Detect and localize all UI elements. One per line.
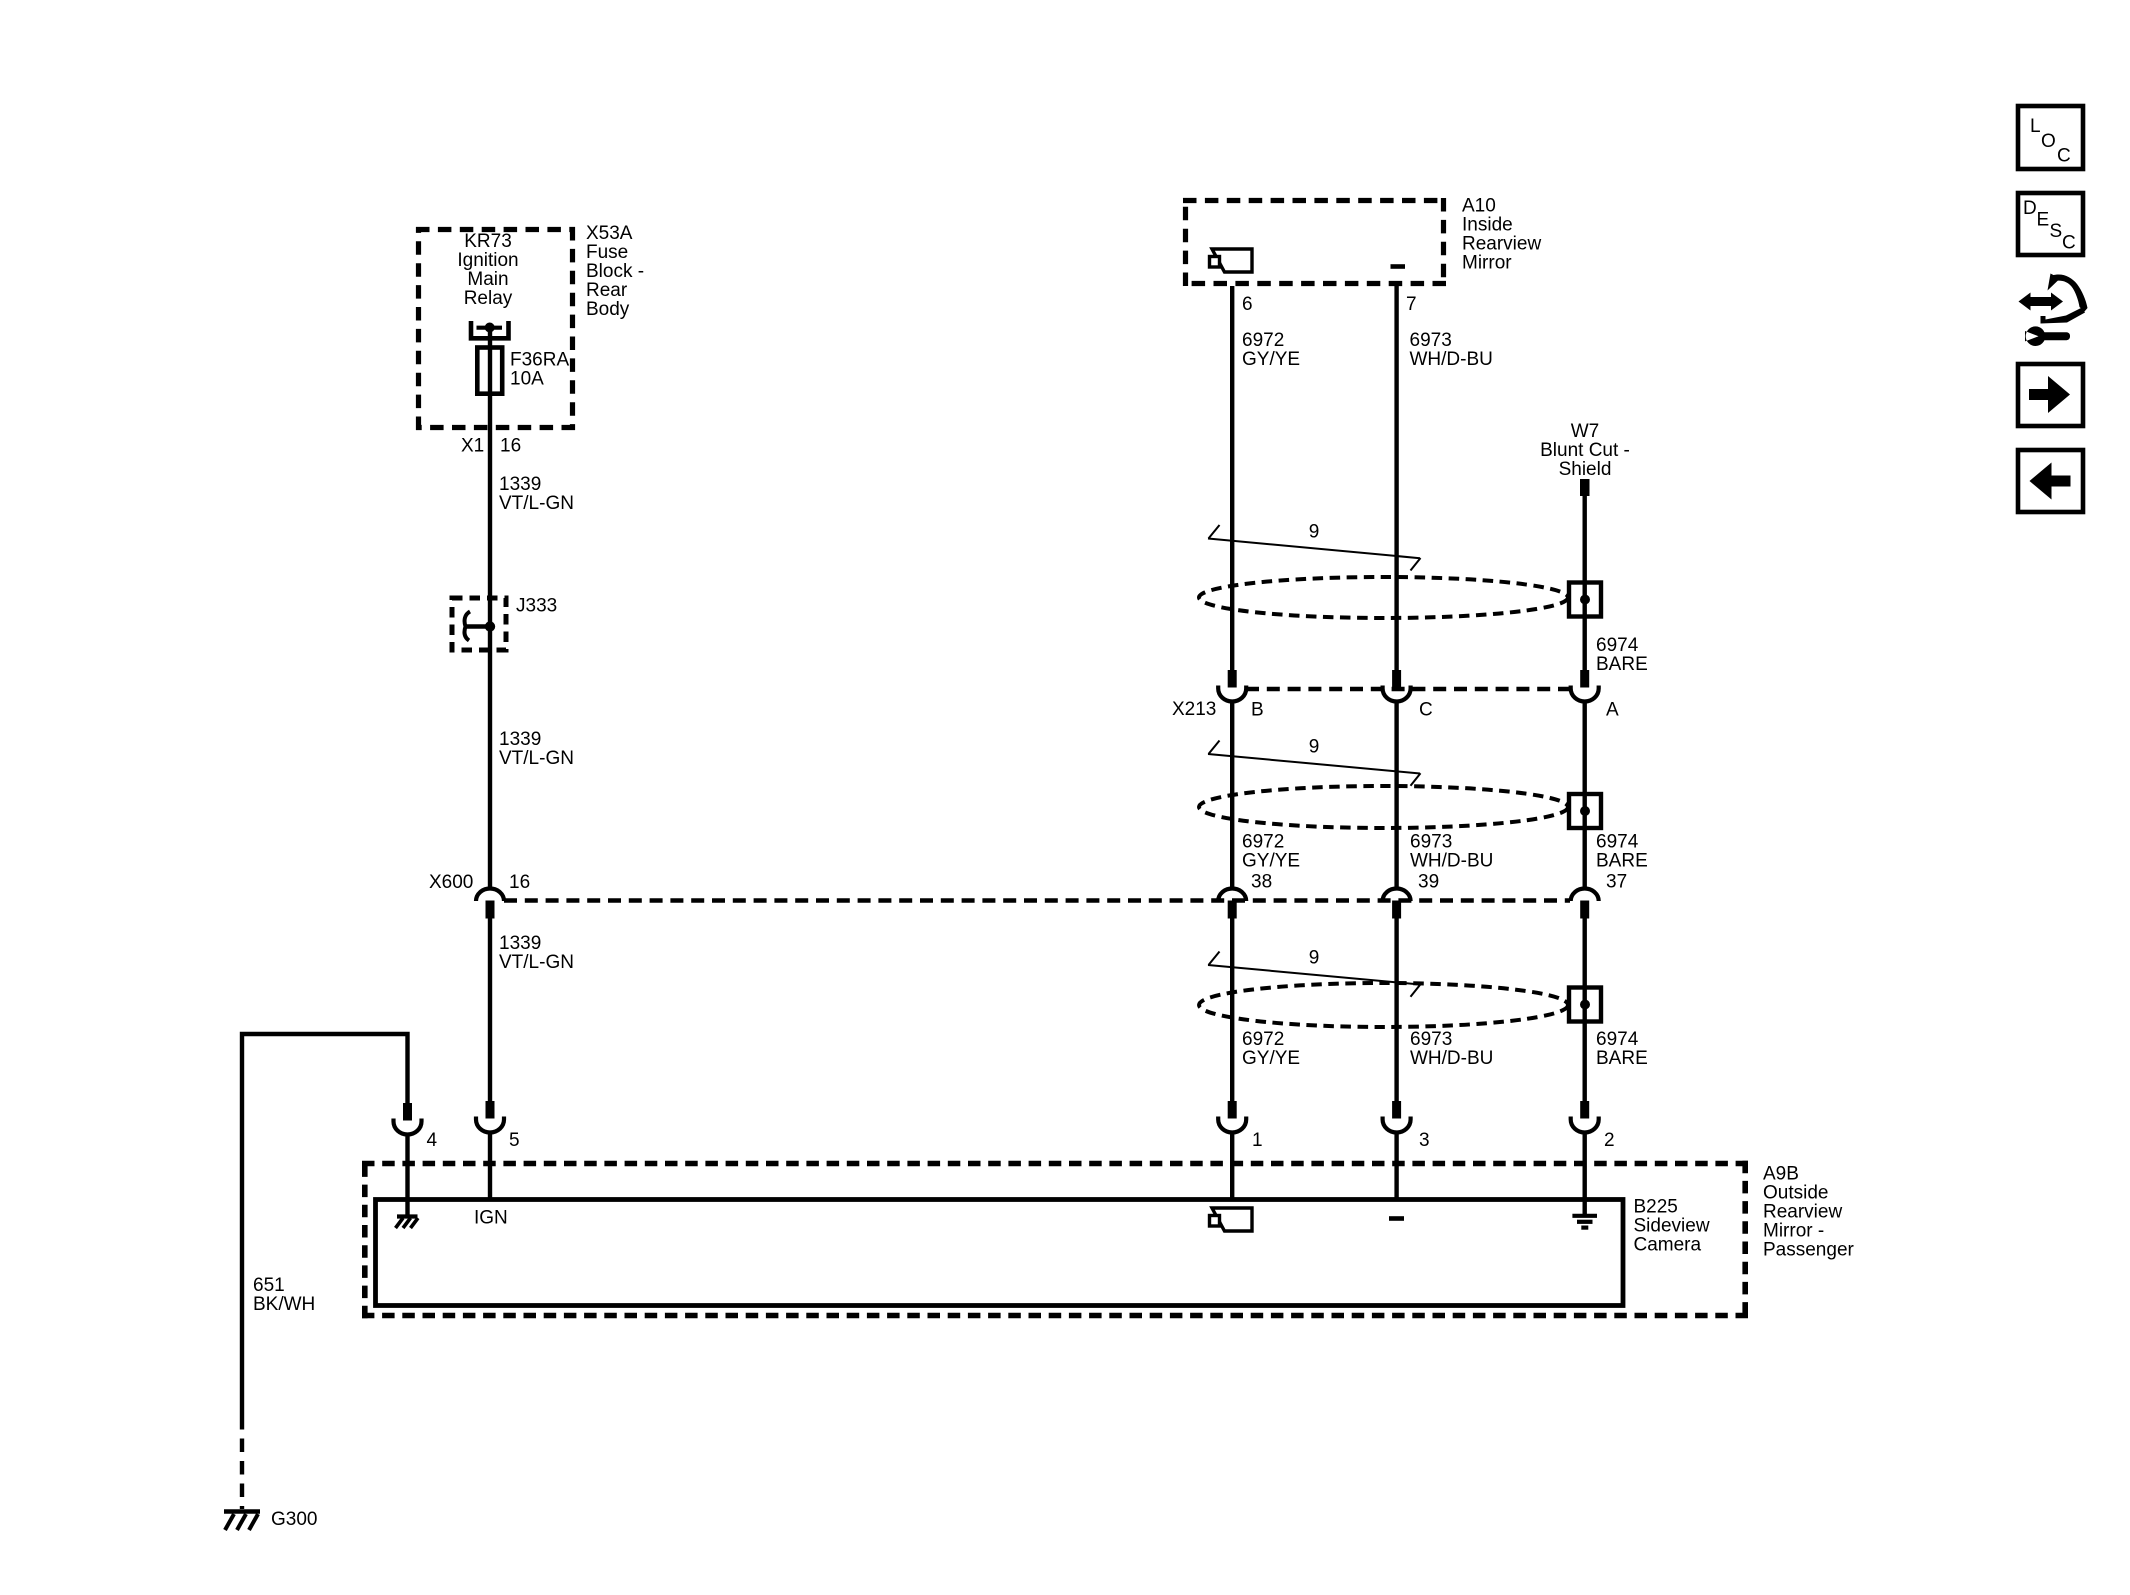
svg-text:X213: X213 [1172, 699, 1216, 720]
svg-text:X600: X600 [429, 872, 473, 893]
wire label 651 BK/WH [253, 1275, 315, 1315]
svg-text:9: 9 [1309, 522, 1320, 543]
svg-text:C: C [2057, 146, 2071, 167]
wire label 1339 VT/L-GN (lower) [499, 933, 574, 973]
connector X213 pin B terminal [1218, 670, 1246, 702]
connector X1 pin 16 labels [461, 436, 521, 457]
svg-text:GY/YE: GY/YE [1242, 349, 1300, 370]
wire 6974 BARE from X600 37 to camera pin 2 [1582, 919, 1586, 1102]
svg-text:A10: A10 [1462, 196, 1496, 217]
svg-text:Body: Body [586, 299, 630, 320]
connector pin 5 terminal [476, 1101, 504, 1133]
X600 pin 39 terminal [1383, 889, 1411, 919]
shield ellipse (upper) [1199, 577, 1568, 618]
svg-text:16: 16 [509, 872, 530, 893]
wire 6974 BARE from X213 A to X600 37 [1582, 700, 1586, 889]
wire 6974 BARE shield drain from W7 to X213 pin A [1582, 496, 1586, 687]
wire label 1339 VT/L-GN (middle) [499, 729, 574, 769]
outside rearview mirror A9B dashed box [362, 1161, 1748, 1319]
wire 1339 VT/L-GN from X600 to pin 5 [488, 919, 492, 1102]
shield ellipse (lower) [1199, 983, 1568, 1027]
svg-text:37: 37 [1606, 872, 1627, 893]
svg-text:Rearview: Rearview [1763, 1202, 1842, 1223]
wire label 1339 VT/L-GN (upper) [499, 474, 574, 514]
fuse F36RA value label [510, 350, 569, 390]
blunt cut W7 stub [1580, 479, 1590, 496]
DESC navigation button [2018, 193, 2083, 255]
svg-text:5: 5 [509, 1130, 520, 1151]
svg-text:9: 9 [1309, 737, 1320, 758]
sideview camera B225 box [376, 1200, 1624, 1306]
camera pin 2 terminal [1571, 1101, 1599, 1133]
wire label 6974 BARE (middle) [1596, 832, 1648, 872]
svg-text:BARE: BARE [1596, 654, 1648, 675]
twisted pair mark (upper) [1208, 525, 1421, 571]
repair instructions icon (arrows and wrench) [2019, 274, 2088, 347]
svg-text:7: 7 [1406, 294, 1417, 315]
shield ellipse (middle) [1199, 786, 1568, 828]
svg-text:WH/D-BU: WH/D-BU [1410, 349, 1493, 370]
svg-text:BARE: BARE [1596, 851, 1648, 872]
svg-text:6: 6 [1242, 294, 1253, 315]
connector X600 terminal [476, 889, 504, 919]
svg-text:C: C [2062, 233, 2076, 254]
connector X213 row dashed line [1246, 687, 1570, 691]
wire 6973 WH/D-BU from X213 C to X600 39 [1394, 700, 1398, 889]
svg-text:6974: 6974 [1596, 635, 1639, 656]
svg-text:B: B [1251, 700, 1264, 721]
svg-text:1: 1 [1252, 1130, 1263, 1151]
fuse F36RA 10A [477, 348, 502, 394]
svg-text:Rear: Rear [586, 280, 628, 301]
fuse block X53A dashed box [416, 227, 575, 430]
svg-text:10A: 10A [510, 369, 544, 390]
svg-text:O: O [2041, 131, 2056, 152]
svg-text:2: 2 [1604, 1130, 1615, 1151]
svg-text:X1: X1 [461, 436, 484, 457]
svg-text:D: D [2023, 198, 2037, 219]
chassis ground symbol at camera pin 4 [396, 1217, 419, 1229]
X600 pin 37 terminal [1571, 889, 1599, 919]
splice J333 dashed box [452, 598, 506, 650]
shield terminal box (middle) [1569, 794, 1601, 828]
svg-text:38: 38 [1251, 872, 1272, 893]
svg-text:39: 39 [1418, 872, 1439, 893]
svg-text:16: 16 [500, 436, 521, 457]
wire from pin 5 into sideview camera IGN [488, 1131, 492, 1200]
svg-text:VT/L-GN: VT/L-GN [499, 748, 574, 769]
wire label 6972 GY/YE (lower) [1242, 1029, 1300, 1069]
svg-text:9: 9 [1309, 948, 1320, 969]
wire label 6972 GY/YE (middle) [1242, 832, 1300, 872]
svg-text:Sideview: Sideview [1634, 1216, 1710, 1237]
A9B label [1763, 1164, 1855, 1261]
twisted pair mark (lower) [1208, 952, 1421, 997]
svg-text:BK/WH: BK/WH [253, 1294, 315, 1315]
relay KR73 label [457, 231, 518, 309]
X600 inline harness dashed line [504, 898, 1570, 902]
svg-text:WH/D-BU: WH/D-BU [1410, 1048, 1493, 1069]
wire from pin 4 into sideview camera ground [405, 1133, 409, 1215]
ground G300 symbol [224, 1512, 260, 1531]
next page arrow button [2018, 364, 2083, 426]
inside rearview mirror A10 dashed box [1183, 198, 1446, 286]
svg-text:WH/D-BU: WH/D-BU [1410, 851, 1493, 872]
svg-text:BARE: BARE [1596, 1048, 1648, 1069]
svg-text:1339: 1339 [499, 474, 541, 495]
wire 6972 GY/YE from A10 pin 6 to X213 pin B [1230, 286, 1234, 687]
svg-text:Blunt Cut -: Blunt Cut - [1540, 440, 1630, 461]
svg-text:1339: 1339 [499, 933, 541, 954]
wire 6973 WH/D-BU from A10 pin 7 to X213 pin C [1394, 286, 1398, 687]
svg-text:B225: B225 [1634, 1197, 1678, 1218]
svg-text:J333: J333 [516, 596, 557, 617]
svg-text:6972: 6972 [1242, 832, 1284, 853]
wire from pin 1 into camera [1230, 1131, 1234, 1200]
A10 label [1462, 196, 1541, 274]
svg-text:Mirror: Mirror [1462, 253, 1512, 274]
camera pin 1 terminal [1218, 1101, 1246, 1133]
wire 6973 WH/D-BU from X600 39 to camera pin 3 [1394, 919, 1398, 1102]
twisted pair mark (middle) [1208, 741, 1421, 786]
wire from pin 2 into camera ground [1582, 1131, 1586, 1215]
svg-text:3: 3 [1419, 1130, 1430, 1151]
svg-text:S: S [2050, 221, 2063, 242]
svg-text:VT/L-GN: VT/L-GN [499, 952, 574, 973]
svg-text:1339: 1339 [499, 729, 541, 750]
svg-text:C: C [1419, 700, 1433, 721]
svg-text:6974: 6974 [1596, 832, 1639, 853]
wire 651 BK/WH elbow from pin 4 to ground run [242, 1034, 408, 1416]
wire 651 BK/WH dashed segment to G300 [240, 1416, 244, 1509]
svg-text:X53A: X53A [586, 223, 633, 244]
svg-text:GY/YE: GY/YE [1242, 1048, 1300, 1069]
svg-text:A9B: A9B [1763, 1164, 1799, 1185]
wire 6972 GY/YE from X600 38 to camera pin 1 [1230, 919, 1234, 1102]
wire from pin 3 into camera [1394, 1131, 1398, 1200]
svg-text:Relay: Relay [464, 288, 513, 309]
svg-text:6974: 6974 [1596, 1029, 1639, 1050]
svg-text:Mirror -: Mirror - [1763, 1221, 1824, 1242]
fuse block X53A label [586, 223, 644, 320]
svg-text:6972: 6972 [1242, 1029, 1284, 1050]
splice J333 symbol [465, 612, 496, 641]
svg-text:6972: 6972 [1242, 330, 1284, 351]
svg-text:Shield: Shield [1559, 459, 1612, 480]
blunt cut W7 label [1540, 421, 1630, 480]
wire label 6973 WH/D-BU (lower) [1410, 1029, 1493, 1069]
svg-text:IGN: IGN [474, 1208, 508, 1229]
svg-text:Camera: Camera [1634, 1235, 1702, 1256]
svg-text:A: A [1606, 700, 1619, 721]
relay KR73 contact symbol [471, 321, 509, 338]
connector X213 pin A terminal [1571, 670, 1599, 702]
X600 pin 38 terminal [1218, 889, 1246, 919]
wire label 6974 BARE (lower) [1596, 1029, 1648, 1069]
minus terminal in A10 [1391, 264, 1406, 269]
camera pin 3 terminal [1383, 1101, 1411, 1133]
svg-text:Passenger: Passenger [1763, 1240, 1855, 1261]
svg-text:E: E [2037, 210, 2050, 231]
camera icon in B225 [1210, 1208, 1253, 1231]
camera icon in A10 [1210, 249, 1253, 272]
svg-text:KR73: KR73 [464, 231, 512, 252]
wire 6972 GY/YE from X213 B to X600 38 [1230, 700, 1234, 889]
svg-text:Fuse: Fuse [586, 242, 628, 263]
earth ground symbol at camera pin 2 [1572, 1216, 1597, 1228]
svg-text:F36RA: F36RA [510, 350, 569, 371]
wire label 6974 BARE (top) [1596, 635, 1648, 675]
svg-text:GY/YE: GY/YE [1242, 851, 1300, 872]
LOC navigation button [2018, 106, 2083, 169]
connector X600 labels [429, 872, 530, 893]
wire label 6973 WH/D-BU (middle) [1410, 832, 1493, 872]
svg-text:Main: Main [467, 269, 508, 290]
svg-text:Rearview: Rearview [1462, 234, 1541, 255]
svg-text:651: 651 [253, 1275, 285, 1296]
svg-text:6973: 6973 [1410, 330, 1452, 351]
previous page arrow button [2018, 450, 2083, 512]
B225 label [1634, 1197, 1710, 1256]
connector X213 pin C terminal [1383, 670, 1411, 702]
svg-text:G300: G300 [271, 1509, 317, 1530]
shield terminal box (lower) [1569, 988, 1601, 1022]
shield terminal box (upper) [1569, 583, 1601, 617]
svg-text:6973: 6973 [1410, 832, 1452, 853]
svg-text:W7: W7 [1571, 421, 1600, 442]
svg-text:6973: 6973 [1410, 1029, 1452, 1050]
svg-text:Ignition: Ignition [457, 250, 518, 271]
svg-text:Inside: Inside [1462, 215, 1513, 236]
svg-text:4: 4 [427, 1130, 438, 1151]
svg-text:L: L [2030, 116, 2041, 137]
minus terminal in B225 [1389, 1216, 1404, 1221]
wire 1339 VT/L-GN from relay KR73 to connector X600 [488, 328, 492, 890]
wire label 6973 WH/D-BU (top) [1410, 330, 1493, 370]
connector pin 4 terminal [394, 1103, 422, 1135]
svg-text:Outside: Outside [1763, 1183, 1828, 1204]
svg-text:Block -: Block - [586, 261, 644, 282]
svg-text:VT/L-GN: VT/L-GN [499, 493, 574, 514]
wire label 6972 GY/YE (top) [1242, 330, 1300, 370]
